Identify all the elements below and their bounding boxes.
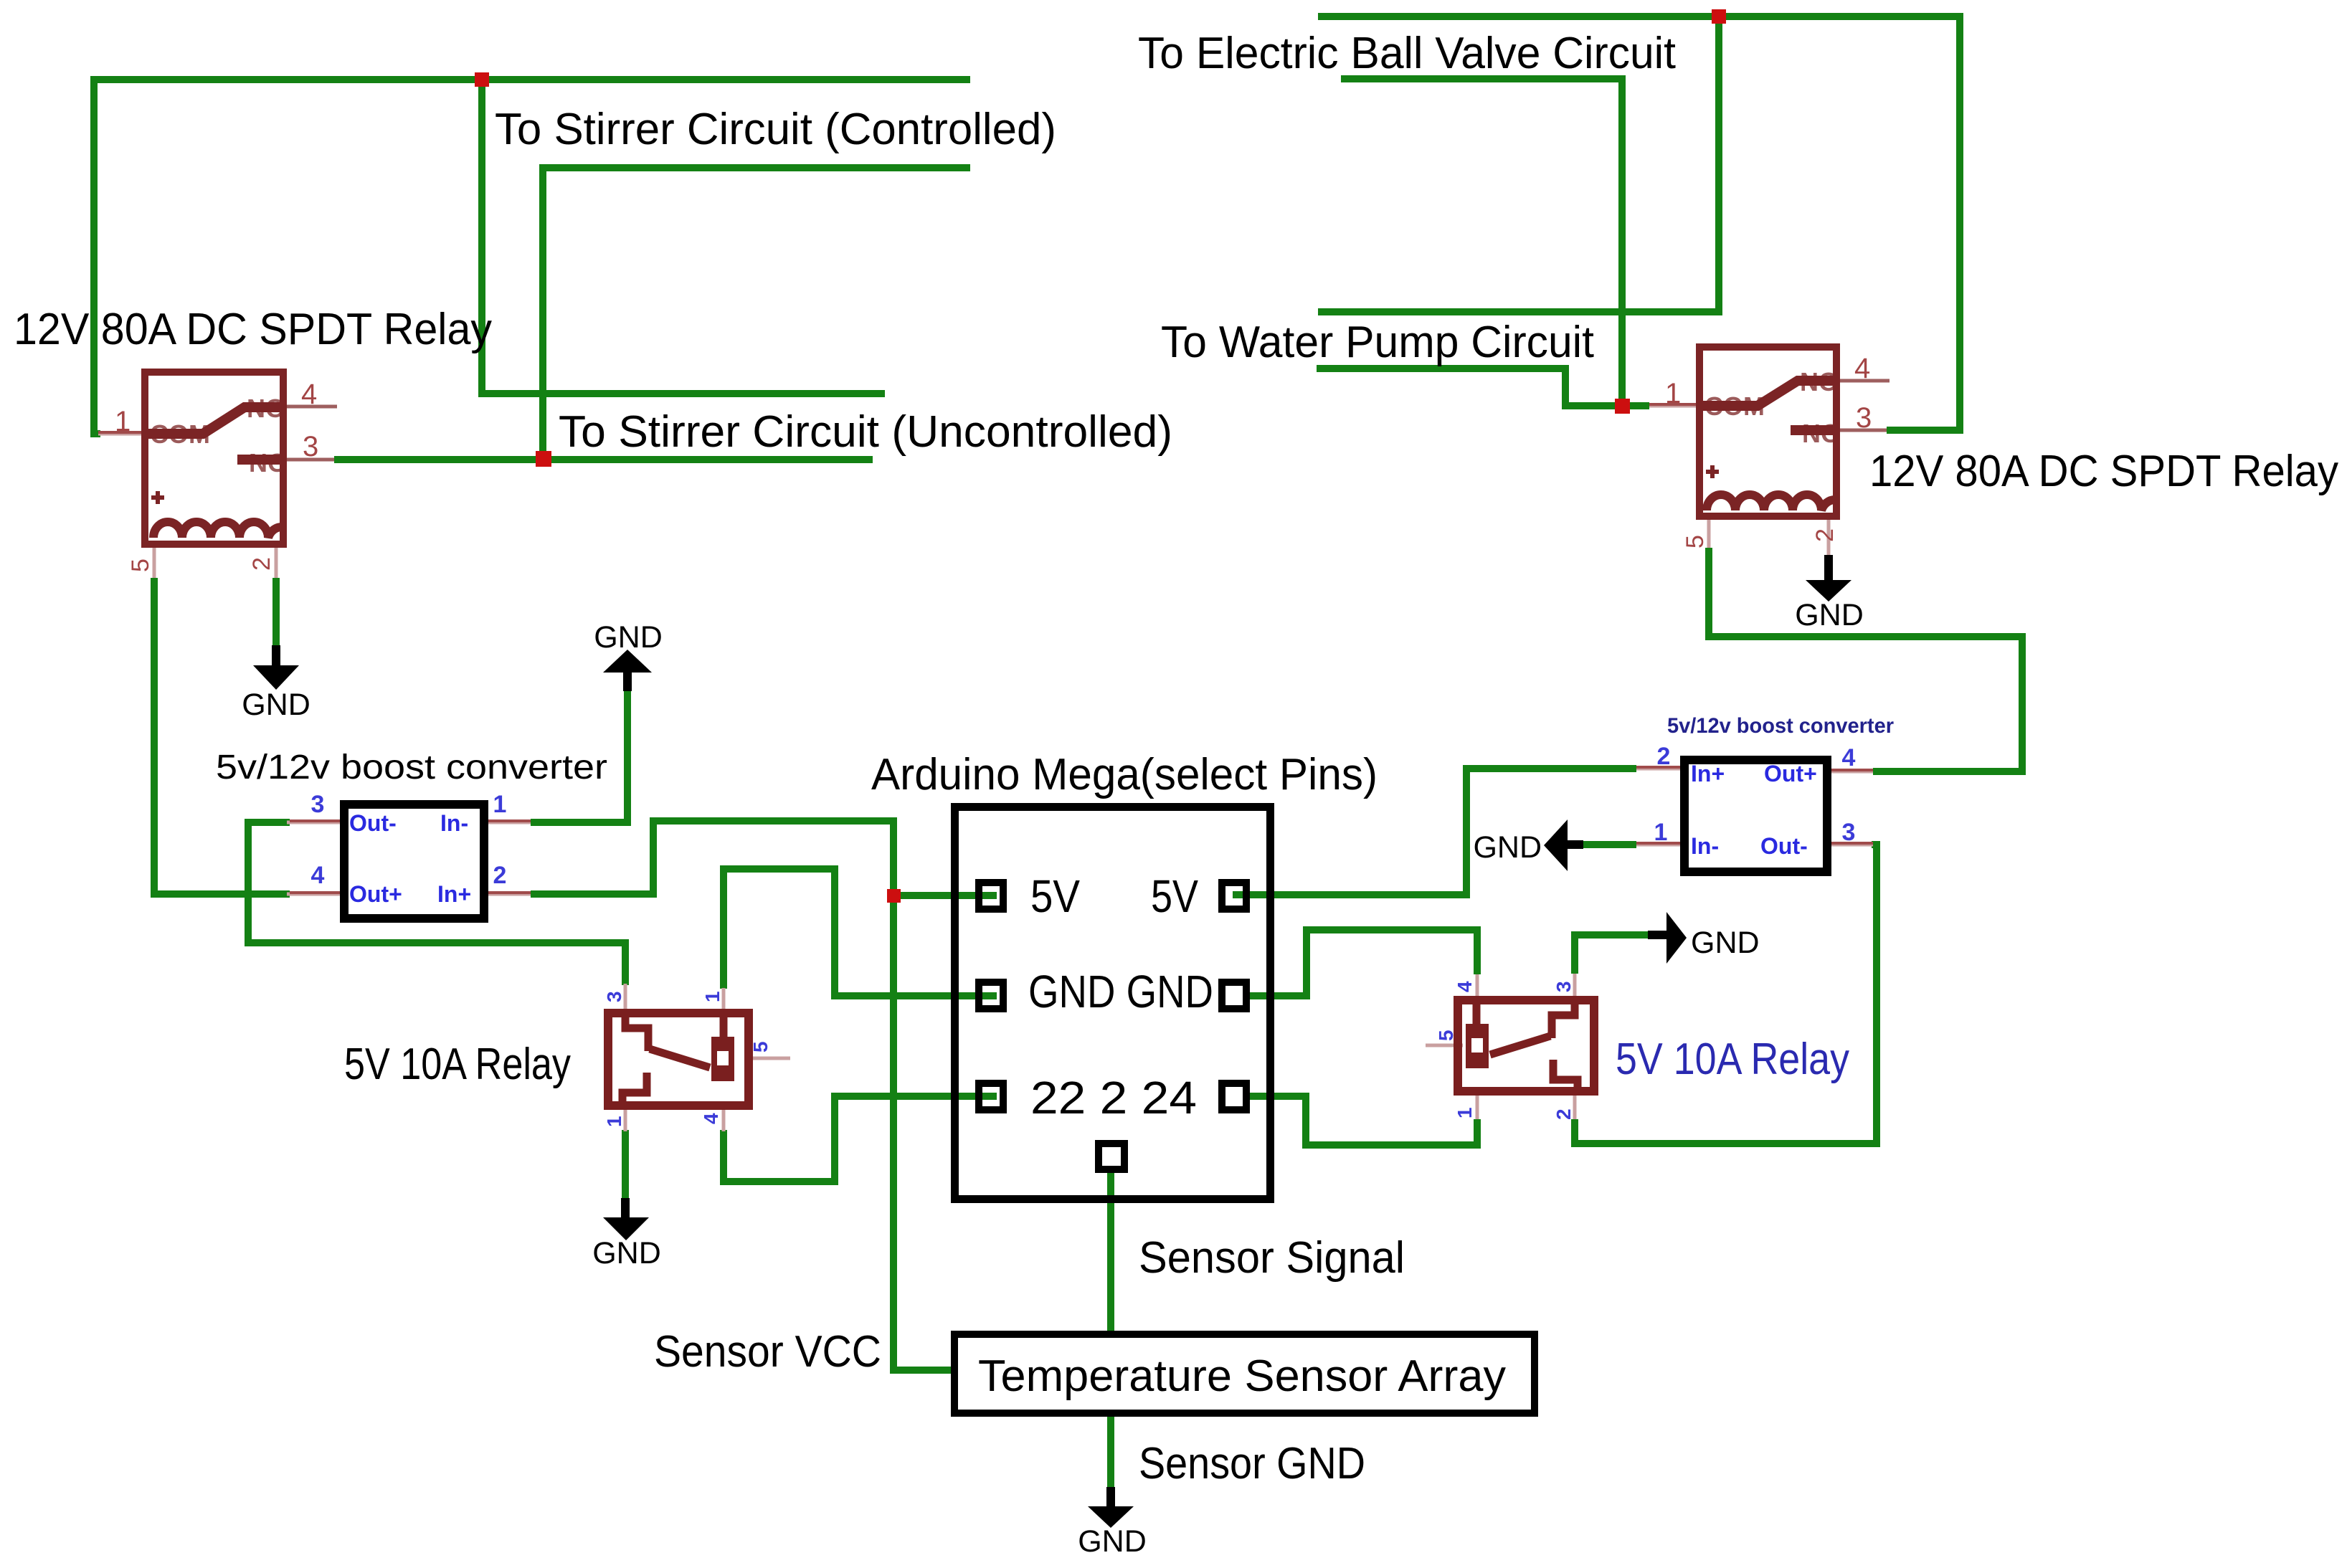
svg-text:Out+: Out+ [1764, 761, 1817, 787]
svg-text:GND GND: GND GND [1028, 966, 1213, 1017]
svg-text:1: 1 [115, 406, 131, 437]
svg-text:5V: 5V [1030, 870, 1080, 922]
svg-text:2: 2 [1552, 1108, 1575, 1120]
svg-text:2: 2 [1657, 743, 1671, 770]
svg-text:4: 4 [301, 379, 317, 410]
svg-text:GND: GND [1691, 926, 1760, 960]
svg-text:5: 5 [749, 1041, 772, 1053]
svg-text:5: 5 [1435, 1030, 1457, 1041]
svg-text:Sensor Signal: Sensor Signal [1139, 1233, 1405, 1283]
svg-text:Arduino Mega(select Pins): Arduino Mega(select Pins) [871, 750, 1378, 799]
svg-text:GND: GND [594, 620, 663, 655]
svg-text:Sensor GND: Sensor GND [1139, 1439, 1365, 1488]
svg-text:4: 4 [1854, 353, 1870, 384]
svg-text:3: 3 [1842, 819, 1856, 846]
svg-text:3: 3 [603, 991, 625, 1002]
svg-text:Out-: Out- [1760, 833, 1808, 859]
svg-text:4: 4 [311, 862, 325, 889]
svg-text:5: 5 [127, 559, 154, 572]
svg-text:To Stirrer Circuit (Uncontroll: To Stirrer Circuit (Uncontrolled) [559, 407, 1172, 457]
svg-text:Out+: Out+ [349, 881, 402, 907]
svg-text:Temperature Sensor Array: Temperature Sensor Array [978, 1351, 1506, 1401]
svg-text:2: 2 [1811, 528, 1839, 542]
svg-text:In-: In- [440, 810, 468, 836]
svg-text:5v/12v boost converter: 5v/12v boost converter [1667, 714, 1894, 738]
svg-text:5v/12v boost converter: 5v/12v boost converter [216, 749, 607, 787]
svg-text:In-: In- [1691, 833, 1719, 859]
svg-text:1: 1 [1665, 378, 1681, 409]
svg-text:1: 1 [1654, 819, 1668, 846]
svg-text:5V: 5V [1151, 870, 1198, 922]
svg-text:5: 5 [1682, 535, 1709, 548]
svg-text:1: 1 [493, 791, 507, 818]
svg-text:1: 1 [603, 1116, 625, 1127]
svg-text:1: 1 [1454, 1107, 1476, 1118]
svg-text:To Water Pump Circuit: To Water Pump Circuit [1161, 318, 1594, 367]
svg-text:GND: GND [592, 1236, 661, 1270]
svg-text:GND: GND [1795, 598, 1864, 632]
svg-text:Sensor VCC: Sensor VCC [654, 1327, 881, 1377]
svg-text:2: 2 [248, 557, 275, 571]
svg-text:GND: GND [1078, 1524, 1147, 1559]
svg-text:3: 3 [311, 791, 325, 818]
svg-text:2: 2 [493, 862, 507, 889]
svg-text:22 2 24: 22 2 24 [1030, 1072, 1197, 1123]
svg-text:4: 4 [1454, 981, 1476, 992]
svg-text:To Stirrer Circuit (Controlled: To Stirrer Circuit (Controlled) [495, 105, 1056, 154]
svg-text:3: 3 [1552, 981, 1575, 992]
svg-text:In+: In+ [1691, 761, 1725, 787]
svg-text:4: 4 [1842, 744, 1856, 771]
svg-text:5V 10A Relay: 5V 10A Relay [344, 1040, 571, 1089]
svg-text:In+: In+ [437, 881, 471, 907]
svg-text:To Electric Ball Valve Circuit: To Electric Ball Valve Circuit [1138, 29, 1676, 78]
svg-text:3: 3 [1856, 402, 1872, 434]
svg-text:GND: GND [1473, 830, 1542, 865]
svg-text:4: 4 [700, 1113, 722, 1124]
svg-text:5V 10A Relay: 5V 10A Relay [1616, 1035, 1849, 1084]
svg-text:1: 1 [701, 991, 724, 1002]
svg-text:Out-: Out- [349, 810, 397, 836]
svg-text:3: 3 [303, 431, 318, 462]
svg-text:12V 80A DC SPDT Relay: 12V 80A DC SPDT Relay [14, 305, 492, 354]
svg-text:GND: GND [242, 688, 310, 722]
svg-text:12V 80A DC SPDT Relay: 12V 80A DC SPDT Relay [1869, 447, 2338, 496]
